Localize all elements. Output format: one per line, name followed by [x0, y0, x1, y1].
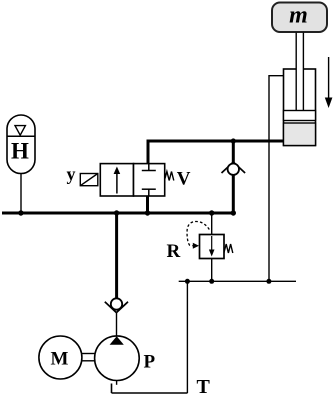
- node return-tank junction: [185, 279, 190, 284]
- node relief branch junction: [209, 210, 214, 215]
- check valve pump: [105, 298, 128, 312]
- cylinder bottom chamber: [284, 123, 316, 146]
- node pump branch junction: [114, 210, 119, 215]
- wire valve V top connection: [147, 140, 150, 164]
- relief valve R body: [200, 235, 225, 259]
- wire pump discharge line: [115, 213, 118, 298]
- svg-text:T: T: [197, 376, 211, 398]
- node accumulator junction: [18, 210, 23, 215]
- svg-text:V: V: [177, 169, 191, 190]
- svg-text:R: R: [167, 241, 181, 262]
- svg-text:m: m: [289, 3, 308, 29]
- spring of valve R: [224, 244, 233, 253]
- pilot line of valve R: [187, 221, 209, 248]
- pump P: [95, 336, 140, 381]
- valve V body: [100, 164, 164, 196]
- motor M: [39, 336, 82, 379]
- tank T: [112, 384, 188, 394]
- wire relief valve outlet: [211, 259, 213, 282]
- solenoid y: [80, 174, 98, 186]
- shaft motor-pump: [82, 354, 96, 361]
- node relief outlet junction: [209, 279, 214, 284]
- node junction top line: [231, 138, 236, 143]
- wire pressure line valve to cylinder: [148, 141, 284, 164]
- check valve upper: [222, 162, 246, 175]
- mass m: [272, 3, 327, 33]
- wire check valve upper stub: [232, 141, 235, 163]
- valve V left position arrow: [114, 167, 121, 194]
- piston rod: [296, 33, 303, 111]
- wire valve V bottom connection: [146, 196, 149, 215]
- velocity arrow: [325, 57, 333, 108]
- wire relief valve inlet: [211, 213, 213, 235]
- wire accumulator connection: [20, 174, 22, 214]
- wire rod-side pipe: [269, 76, 284, 282]
- svg-text:y: y: [67, 164, 76, 184]
- piston: [284, 111, 316, 121]
- wire main pressure line: [2, 212, 235, 215]
- svg-text:M: M: [51, 348, 69, 369]
- wire return header: [179, 280, 296, 282]
- wire check valve to pump: [116, 313, 118, 336]
- svg-text:P: P: [144, 352, 156, 373]
- wire pump suction: [116, 381, 118, 385]
- cylinder barrel: [284, 69, 316, 146]
- node check valve junction: [231, 210, 236, 215]
- node valve bottom junction: [145, 210, 150, 215]
- accumulator H: [7, 115, 35, 174]
- wire return line to tank: [186, 281, 188, 393]
- spring of valve V: [165, 172, 174, 181]
- node rod-side junction: [266, 279, 271, 284]
- svg-text:H: H: [11, 139, 29, 164]
- valve V right position closed ports: [142, 164, 156, 196]
- wire check valve lower stub: [232, 175, 235, 215]
